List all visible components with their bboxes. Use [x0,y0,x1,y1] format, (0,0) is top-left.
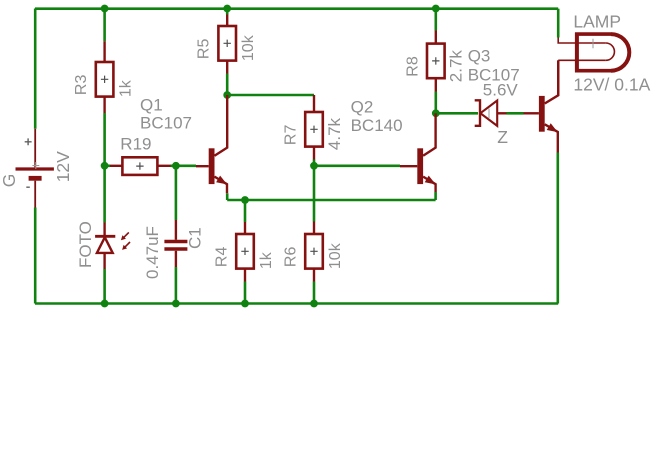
svg-text:12V/ 0.1A: 12V/ 0.1A [573,75,650,95]
wire lamp drop upper [557,9,560,38]
wire R7 bottom pin [313,147,315,160]
wire R5 bottom to node [226,74,229,96]
wire node to zener [436,112,478,115]
svg-text:1k: 1k [117,79,134,97]
wire node down to R6 [313,166,316,222]
capacitor C1 [143,226,205,279]
resistor R19 [120,135,157,175]
resistor R6 [283,234,344,269]
wire R6 bottom pin [313,269,315,282]
svg-text:BC140: BC140 [351,116,403,135]
wire top rail [35,7,558,10]
wire R3 bottom to node [103,113,106,166]
wire R8 top stub [434,9,437,31]
resistor R4 [214,234,275,269]
battery G [0,129,73,208]
wire R7 bottom stub [313,160,316,166]
zener diode Z [475,100,509,147]
transistor Q2 [351,98,436,192]
resistor R3 [73,62,134,97]
wire R5 top stub [226,9,229,15]
node R8/zener [432,109,440,117]
wire R19 left pin [110,165,122,167]
wire node to R19 [105,165,110,168]
node R4 top [241,196,249,204]
wire R3 top [103,9,106,41]
wire C1 bottom [175,267,178,304]
wire R4 bottom [244,282,247,304]
svg-text:R7: R7 [283,125,300,146]
node C1 bottom [172,300,180,308]
svg-text:C1: C1 [186,227,205,249]
node R4 bottom [241,300,249,308]
node R7/R6/Q2 base [310,162,318,170]
wire emitter rail [227,199,435,202]
wire node down to FOTO [103,166,106,223]
wire Q1 base pin [196,165,209,167]
wire R3 top pin [103,41,105,62]
svg-text:Z: Z [497,127,508,147]
wire R4 top stub [244,200,247,222]
transistor Q1 [140,95,227,193]
wire R5 bottom pin [226,61,228,74]
wire zener to Q3 base [507,112,524,115]
wire R7 top pin [313,95,315,112]
wire R6 to bottom rail [313,282,316,304]
svg-text:12V: 12V [53,151,73,182]
resistor R5 [196,26,257,61]
component pin stubs (dark red) [105,15,539,282]
svg-text:R6: R6 [283,247,300,268]
lamp LA1 [558,12,650,96]
svg-text:Q3: Q3 [468,46,491,65]
node R5 top [223,5,231,13]
wire Q2 emitter stub [434,192,437,200]
resistor R7 [283,112,344,150]
svg-text:Q2: Q2 [351,98,374,117]
wire left rail upper [34,9,37,129]
wire Q2 base pin [400,165,417,167]
svg-text:1k: 1k [258,251,275,269]
wire R19 right pin [157,165,170,167]
svg-text:R4: R4 [214,247,231,268]
wire left rail lower [34,208,37,304]
svg-text:LAMP: LAMP [573,12,621,32]
svg-text:10k: 10k [240,34,257,61]
wire FOTO to bottom rail [103,269,106,304]
svg-text:G: G [0,174,19,188]
wire node to R7 [227,94,314,97]
wire R8 top pin [435,31,437,44]
svg-text:2.7k: 2.7k [447,50,466,83]
wire R8 bottom to node [434,92,437,114]
svg-text:BC107: BC107 [140,114,192,133]
wire bottom rail [35,302,558,305]
svg-text:0.47uF: 0.47uF [143,226,162,279]
wire R4 bottom pin [244,269,246,282]
wire R19 to Q1 base [171,165,197,168]
svg-text:R3: R3 [73,75,90,96]
node R3 top [101,5,109,13]
wire node to Q2 base [314,165,400,168]
wire C1 top pin [175,220,177,240]
node FOTO bottom [101,300,109,308]
svg-text:4.7k: 4.7k [325,117,344,150]
wire R4 top pin [244,222,246,234]
wire R6 top pin [313,222,315,235]
svg-text:R8: R8 [404,56,421,77]
wire C1 bottom pin [175,251,177,267]
node R6 bottom [310,300,318,308]
svg-text:10k: 10k [327,242,344,269]
node R8 top [432,5,440,13]
wire Q3 base pin [524,112,539,114]
transistor Q3 [468,46,559,152]
wire Q3 emitter to bottom rail [556,153,559,304]
wire R8 bottom pin [435,79,437,92]
wire zener right pin [498,112,507,114]
wire Q1 emitter stub [226,193,229,200]
svg-text:5.6V: 5.6V [483,81,519,100]
photodiode FOTO [76,221,130,268]
wire FOTO bottom pin [103,254,105,270]
node R3/R19/FOTO [101,162,109,170]
wire R5 top pin [226,15,228,27]
svg-text:R19: R19 [120,135,151,154]
resistor R8 [404,44,465,83]
svg-text:Q1: Q1 [140,96,163,115]
wire C1 top [175,166,178,220]
node C1 top [172,162,180,170]
wire R3 bottom pin [103,97,105,113]
svg-text:R5: R5 [196,39,213,60]
svg-text:FOTO: FOTO [76,221,95,268]
wire FOTO top pin [103,223,105,236]
node Q1 collector / R5 / R7 [223,91,231,99]
